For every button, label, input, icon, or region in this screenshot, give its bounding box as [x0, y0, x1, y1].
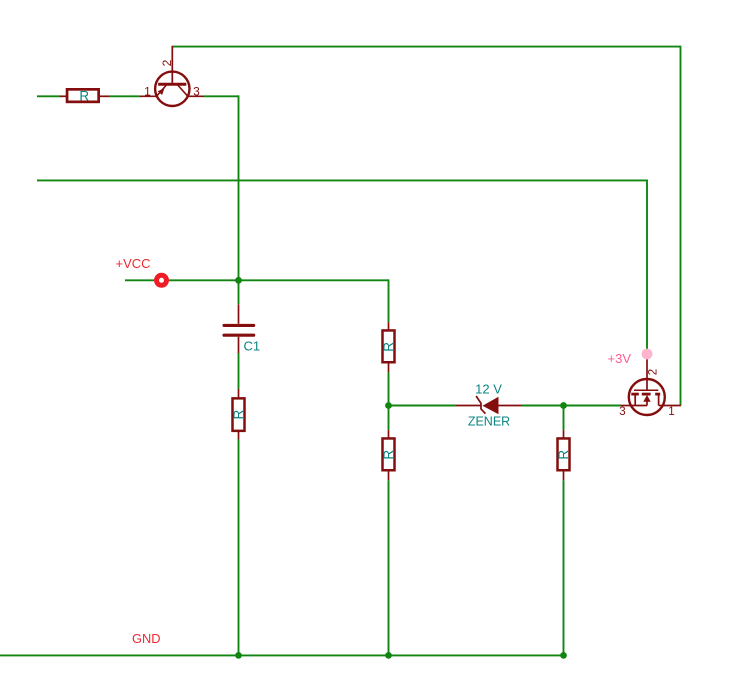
resistor R3	[383, 322, 395, 372]
svg-text:C1: C1	[244, 339, 261, 354]
wire left input to R1	[37, 95, 61, 97]
transistor Q2 MOSFET	[621, 359, 681, 415]
junction GND x238	[235, 652, 242, 659]
capacitor C1	[224, 304, 254, 353]
wire x388 bottom segment	[388, 480, 390, 656]
wire vertical x238 upper	[238, 95, 240, 304]
resistor R5	[558, 430, 570, 480]
svg-text:R: R	[556, 450, 571, 460]
pin number 2 of Q1	[160, 59, 174, 66]
svg-text:2: 2	[648, 369, 660, 375]
wire x238 cap to R2	[238, 353, 240, 389]
value label R of R4	[381, 450, 396, 460]
junction GND x563	[560, 652, 567, 659]
svg-text:+3V: +3V	[608, 351, 632, 366]
wire right vertical to Q2 drain	[680, 46, 682, 406]
power symbol +VCC	[157, 275, 167, 285]
wire +VCC left stub	[125, 279, 154, 281]
wire zener right to Q2 pin3	[522, 405, 622, 407]
transistor Q1	[140, 46, 204, 106]
junction at VCC node	[235, 277, 242, 284]
wire x563 upper segment	[563, 406, 565, 431]
wire GND bus	[0, 654, 564, 656]
wire x563 bottom segment	[563, 480, 565, 656]
power symbol +3V	[642, 349, 653, 360]
value label R of R2	[231, 409, 246, 419]
junction zener anode node	[560, 402, 567, 409]
wire x238 bottom segment	[238, 439, 240, 656]
svg-text:2: 2	[160, 59, 174, 66]
svg-text:12 V: 12 V	[475, 382, 502, 397]
svg-text:+VCC: +VCC	[116, 256, 151, 271]
value label R of R3	[381, 342, 396, 352]
wire second horizontal net	[37, 179, 647, 181]
wire top horizontal net	[172, 46, 680, 48]
svg-text:3: 3	[193, 84, 200, 98]
svg-text:GND: GND	[132, 631, 160, 646]
svg-text:R: R	[381, 342, 396, 352]
wire Q1 pin3 to corner	[204, 95, 239, 97]
wire x388 top segment	[388, 279, 390, 322]
svg-text:R: R	[231, 409, 246, 419]
svg-text:R: R	[79, 88, 89, 103]
svg-text:1: 1	[668, 406, 674, 418]
pin number 2 of Q2	[648, 369, 660, 375]
zener diode D1	[456, 396, 522, 414]
wire vertical to +3V	[646, 180, 648, 350]
wire x388 middle segment	[388, 372, 390, 430]
svg-text:3: 3	[619, 406, 625, 418]
svg-text:R: R	[381, 450, 396, 460]
junction GND x388	[385, 652, 392, 659]
wire +VCC to middle branch	[169, 279, 389, 281]
resistor R1	[60, 89, 109, 102]
resistor R4	[383, 430, 395, 480]
wire zener left	[389, 405, 457, 407]
svg-text:ZENER: ZENER	[468, 415, 510, 429]
junction zener cathode node	[385, 402, 392, 409]
resistor R2	[233, 389, 245, 440]
value label R of R5	[556, 450, 571, 460]
wire R1 to Q1 pin1	[109, 95, 141, 97]
svg-text:1: 1	[144, 84, 151, 98]
